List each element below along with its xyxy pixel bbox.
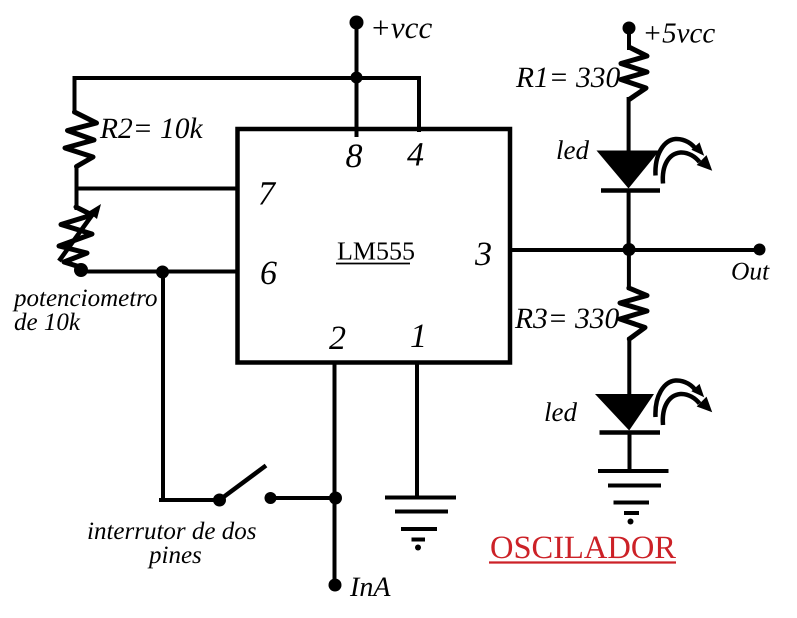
svg-text:pines: pines [147, 542, 202, 569]
svg-text:interrutor de dos: interrutor de dos [87, 518, 256, 545]
wire top horizontal rail [73, 76, 422, 80]
wire LED D2 to ground [628, 432, 632, 471]
power terminal +5vcc dot [623, 22, 636, 35]
resistor R3 [620, 288, 647, 339]
junction node switch to pin 2 wire [329, 492, 342, 505]
svg-text:2: 2 [329, 320, 346, 357]
label LM555 [336, 237, 415, 266]
switch S1 interruptor [159, 466, 336, 507]
svg-text:7: 7 [258, 176, 277, 213]
svg-text:+vcc: +vcc [370, 10, 432, 45]
junction node on pin 6 wire [156, 266, 169, 279]
wire R1 to LED D1 [627, 97, 631, 153]
svg-text:4: 4 [407, 137, 424, 174]
junction node on +vcc rail [351, 72, 363, 84]
svg-text:3: 3 [474, 236, 492, 273]
svg-text:R2= 10k: R2= 10k [99, 113, 204, 145]
LED D2 [595, 394, 660, 433]
ground under pin 1 [385, 498, 456, 551]
svg-text:+5vcc: +5vcc [643, 18, 716, 50]
svg-text:LM555: LM555 [337, 237, 415, 266]
junction node on output wire [623, 243, 636, 256]
LED D1 light emission arrows [655, 139, 717, 184]
LED D2 light emission arrows [655, 380, 717, 425]
resistor R1 [621, 48, 647, 100]
op-amp U1 LM555 body [238, 129, 511, 363]
potentiometer body zigzag [59, 207, 92, 267]
svg-text:InA: InA [349, 572, 391, 603]
svg-text:6: 6 [260, 255, 277, 292]
label potenciometro de 10k [12, 285, 157, 336]
wire pin 3 output horizontal [509, 248, 760, 252]
wire output node to R3 [627, 250, 631, 290]
svg-text:R1= 330: R1= 330 [515, 62, 621, 94]
wire pin 2 down to InA [333, 361, 337, 584]
svg-text:Out: Out [731, 257, 770, 286]
wire pin 1 down to ground [415, 361, 419, 497]
node Out terminal dot [754, 244, 766, 256]
node InA terminal dot [329, 579, 342, 592]
wire left rail down to R2 [73, 76, 77, 114]
svg-text:de 10k: de 10k [14, 309, 81, 336]
wire junction down to switch [161, 271, 165, 500]
svg-text:led: led [544, 397, 577, 427]
potentiometer bottom terminal dot [74, 263, 88, 277]
ground under LED D2 [598, 471, 669, 525]
wire pin 6 horizontal [81, 270, 239, 274]
svg-text:1: 1 [410, 318, 427, 355]
wire rail corner down to pin 4 [417, 78, 421, 132]
wire +vcc down to pin 8 [355, 22, 359, 137]
wire LED D1 to output node [627, 190, 631, 250]
label interrutor de dos pines [87, 518, 256, 569]
power terminal +vcc dot [350, 16, 364, 30]
potentiometer wiper arrow [59, 204, 101, 261]
svg-text:led: led [556, 135, 589, 165]
title OSCILADOR [489, 530, 676, 566]
LED D1 [597, 151, 661, 191]
resistor R2 [65, 112, 97, 167]
wire pin 7 horizontal [75, 187, 239, 191]
svg-text:8: 8 [346, 138, 363, 175]
svg-text:potenciometro: potenciometro [12, 285, 157, 312]
wire +5vcc to R1 [627, 28, 631, 50]
svg-text:OSCILADOR: OSCILADOR [490, 530, 676, 566]
svg-text:R3= 330: R3= 330 [514, 303, 620, 335]
wire R2 to potentiometer [75, 165, 79, 210]
wire R3 to LED D2 [627, 337, 631, 397]
